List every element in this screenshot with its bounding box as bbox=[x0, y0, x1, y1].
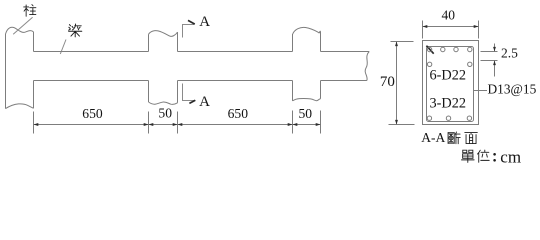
svg-text:A: A bbox=[199, 14, 210, 30]
unit note glyph 位 bbox=[477, 150, 489, 162]
dim 40 arrow right bbox=[474, 25, 479, 28]
unit note fullwidth colon bbox=[493, 153, 496, 156]
dim 2.5 up arrow bbox=[494, 61, 496, 77]
dim 40 arrow left bbox=[423, 25, 428, 28]
dim arrow left 50-2 bbox=[293, 123, 298, 126]
column C2 right edge upper bbox=[177, 32, 179, 51]
svg-text:50: 50 bbox=[158, 106, 172, 121]
rebar top row circle 2 bbox=[441, 47, 445, 51]
label 柱 (column) glyph bbox=[24, 5, 36, 17]
rebar second row circle left bbox=[427, 62, 431, 66]
leader line for 柱 bbox=[13, 17, 32, 34]
dimension extension line at x=33 bbox=[33, 112, 35, 134]
beam top line segment 3 bbox=[321, 51, 370, 53]
dim 2.5 down arrow bbox=[494, 44, 496, 52]
dimension line bbox=[34, 124, 321, 126]
dim 70 extension line bottom bbox=[389, 124, 415, 126]
beam top line segment 2 bbox=[178, 51, 293, 53]
section cut mark A bottom arrow tick bbox=[189, 100, 195, 103]
dim 40 extension line left bbox=[422, 21, 424, 39]
rebar bottom row circle 2 bbox=[446, 116, 450, 120]
column C1 top break wavy bbox=[6, 27, 34, 34]
dimension extension line at x=177 bbox=[177, 112, 179, 134]
beam bottom line segment 2 bbox=[178, 80, 293, 82]
dim 70 arrow bottom bbox=[395, 120, 398, 125]
column C2 left edge lower bbox=[148, 81, 150, 103]
dim 40 line bbox=[423, 26, 479, 28]
column C2 right edge lower bbox=[177, 81, 179, 103]
dim arrow right 650-1 bbox=[144, 123, 149, 126]
dim 2.5 leader line lower bbox=[481, 60, 498, 62]
dim arrow right 50-2 bbox=[316, 123, 321, 126]
rebar bottom row circle 3 bbox=[467, 116, 471, 120]
rebar top row circle 4 bbox=[468, 47, 472, 51]
dim arrow left 50-1 bbox=[149, 123, 154, 126]
beam bottom line segment 3 bbox=[321, 80, 367, 82]
section cut mark A top arrow tick bbox=[188, 20, 195, 24]
section cut mark A bottom bbox=[183, 84, 196, 101]
svg-text:cm: cm bbox=[500, 148, 521, 167]
beam bottom line segment 1 bbox=[34, 80, 149, 82]
rebar top row circle 3 bbox=[454, 47, 458, 51]
column C1 right edge lower bbox=[33, 81, 35, 109]
dim arrow right 50-1 bbox=[173, 123, 178, 126]
beam right end break wavy bbox=[365, 52, 369, 81]
svg-text:650: 650 bbox=[228, 106, 249, 121]
svg-text:650: 650 bbox=[82, 106, 103, 121]
column C2 top break wavy bbox=[149, 31, 178, 37]
column C1 right edge upper bbox=[33, 32, 35, 52]
stirrup rectangle bbox=[427, 47, 474, 122]
dim 2.5 leader line upper bbox=[481, 51, 498, 53]
column C1 bottom break wavy bbox=[6, 104, 34, 109]
label 梁 (beam) glyph bbox=[69, 24, 82, 37]
dim 70 arrow top bbox=[395, 42, 398, 47]
leader line for 梁 bbox=[60, 40, 66, 55]
column C2 bottom break wavy bbox=[149, 102, 178, 104]
svg-text:D13@15: D13@15 bbox=[488, 82, 537, 97]
svg-text:3-D22: 3-D22 bbox=[430, 96, 467, 112]
column C3 right edge lower bbox=[320, 81, 322, 99]
dim 40 extension line right bbox=[478, 21, 480, 39]
column C1 left edge bbox=[5, 34, 7, 109]
dim arrow left 650-2 bbox=[178, 123, 183, 126]
dimension extension line at x=320 bbox=[320, 111, 322, 134]
stirrup hook tick bbox=[426, 46, 433, 54]
section title glyph 斷 bbox=[448, 132, 460, 144]
svg-text:6-D22: 6-D22 bbox=[430, 68, 467, 84]
svg-text:2.5: 2.5 bbox=[501, 46, 518, 61]
beam top line segment 1 bbox=[34, 51, 149, 53]
stirrup leader line bbox=[474, 90, 488, 92]
section cut mark A top bbox=[183, 25, 195, 38]
svg-text:A-A: A-A bbox=[421, 130, 445, 145]
section title glyph 面 bbox=[465, 133, 478, 144]
rebar top row circle 1 bbox=[427, 47, 431, 51]
dim arrow left 650-1 bbox=[34, 123, 39, 126]
column C3 right edge upper bbox=[320, 31, 322, 51]
rebar bottom row circle 1 bbox=[427, 116, 431, 120]
dimension extension line at x=148 bbox=[148, 112, 150, 134]
column C3 left edge lower bbox=[292, 81, 294, 101]
dimension extension line at x=292 bbox=[292, 111, 294, 134]
dim arrow right 650-2 bbox=[288, 123, 293, 126]
column C3 bottom break wavy bbox=[293, 99, 321, 101]
column C3 left edge upper bbox=[292, 34, 294, 52]
svg-text:70: 70 bbox=[380, 74, 395, 90]
rebar second row circle right bbox=[468, 62, 472, 66]
section outer concrete rectangle bbox=[423, 41, 479, 125]
unit note glyph 單 bbox=[462, 150, 475, 162]
column C2 left edge upper bbox=[148, 34, 150, 51]
svg-text:50: 50 bbox=[299, 106, 313, 121]
svg-text:A: A bbox=[199, 94, 210, 110]
dim 70 vertical line bbox=[396, 42, 398, 125]
column C3 top break wavy bbox=[293, 27, 321, 34]
svg-text:40: 40 bbox=[441, 8, 455, 23]
dim 70 extension line top bbox=[391, 41, 414, 43]
